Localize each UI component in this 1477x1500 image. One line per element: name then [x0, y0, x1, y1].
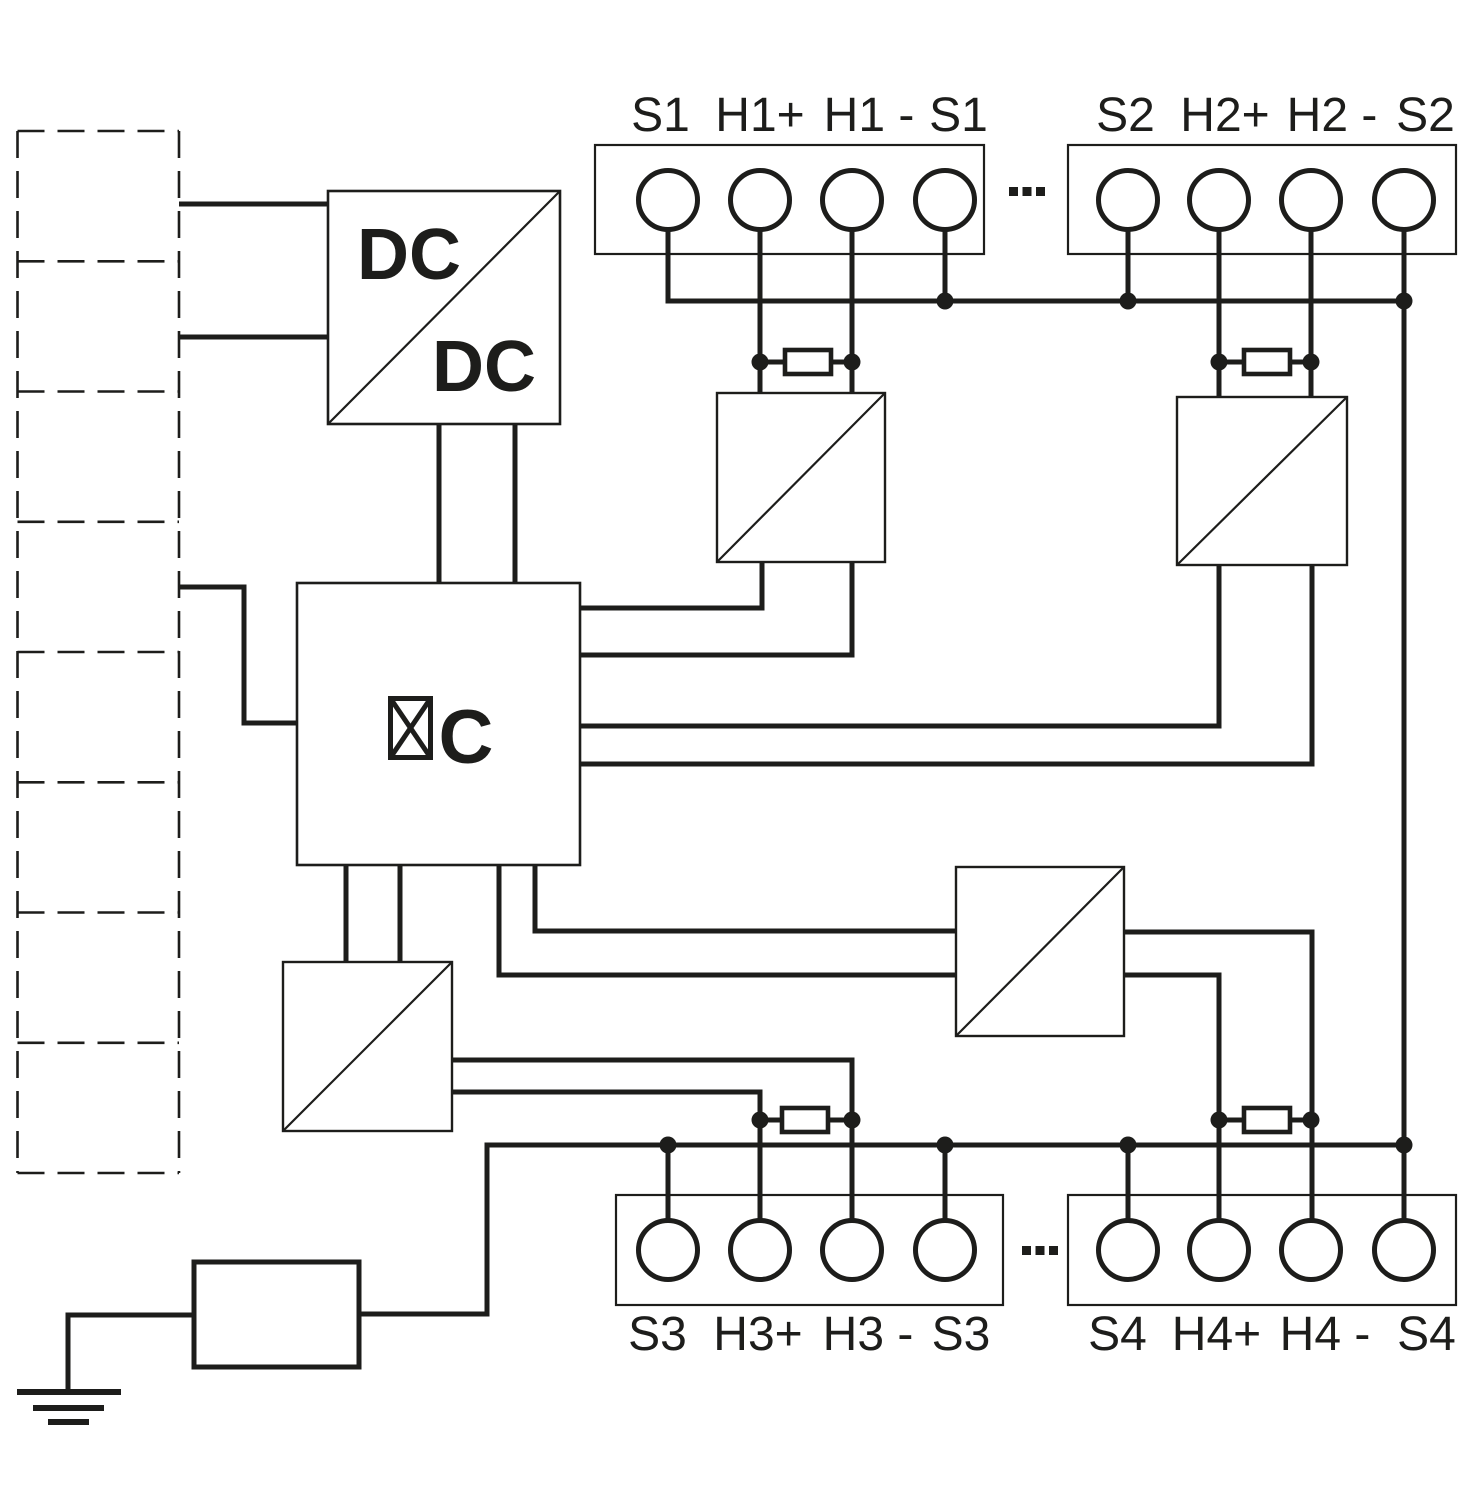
terminal S3 right	[916, 1221, 975, 1280]
svg-text:DC: DC	[432, 327, 536, 407]
wire isolator1 out A to uC	[580, 562, 762, 608]
svg-text:H3 -: H3 -	[823, 1308, 914, 1361]
wire isolator1 out B to uC	[580, 562, 852, 655]
wire isolator3 out B to H4+	[1124, 975, 1219, 1221]
svg-text:DC: DC	[357, 215, 461, 295]
terminal block X1	[595, 145, 984, 254]
junction S4-left / bottom bus	[1120, 1137, 1137, 1154]
wire isolator3 out A to H4-	[1124, 932, 1312, 1221]
ground	[17, 1392, 121, 1422]
wire H2- to isolator2	[1309, 229, 1314, 397]
junction R4 right	[1303, 1112, 1320, 1129]
wire bus to DC/DC lower	[179, 335, 328, 340]
wire uC to isolator3 in B	[499, 865, 956, 975]
svg-text:H2+: H2+	[1180, 89, 1269, 142]
wire S2-S4 common vertical	[1402, 229, 1407, 1221]
svg-text:H2 -: H2 -	[1287, 89, 1378, 142]
wire isolator2 out A to uC	[580, 565, 1219, 726]
wire S4 left stub	[1126, 1145, 1131, 1221]
bus connector (dashed backplane)	[18, 131, 180, 1173]
junction R4 left	[1211, 1112, 1228, 1129]
svg-text:S3: S3	[932, 1308, 991, 1361]
junction S3-left / bottom bus	[660, 1137, 677, 1154]
terminal S2 left	[1099, 171, 1158, 230]
resistor R3	[760, 1108, 852, 1132]
isolator 3 (mid right)	[956, 867, 1124, 1036]
terminal H1-	[823, 171, 882, 230]
wire isolator4 out B to H3+	[452, 1092, 760, 1221]
svg-text:S3: S3	[628, 1308, 687, 1361]
terminal block X3	[616, 1195, 1003, 1305]
wire filter to ground	[68, 1315, 194, 1392]
wire bus to DC/DC upper	[179, 202, 328, 207]
wire uC to isolator3 in A	[535, 865, 956, 931]
junction R2 right	[1303, 354, 1320, 371]
junction S2-left / top bus	[1120, 293, 1137, 310]
wire isolator2 out B to uC	[580, 565, 1312, 764]
junction R3 left	[752, 1112, 769, 1129]
wire S1 right stub	[943, 229, 948, 301]
wire isolator4 out A to H3-	[452, 1060, 852, 1221]
svg-text:H1 -: H1 -	[824, 89, 915, 142]
junction S1-right / top bus	[937, 293, 954, 310]
wire H1+ to isolator1	[758, 229, 763, 393]
svg-text:S2: S2	[1396, 89, 1455, 142]
junction R3 right	[844, 1112, 861, 1129]
wire H2+ to isolator2	[1217, 229, 1222, 397]
wire S2 left stub	[1126, 229, 1131, 301]
wire DC/DC to uC left	[437, 424, 442, 583]
isolator 4 (bottom left)	[283, 962, 452, 1131]
resistor R1	[760, 350, 852, 374]
svg-text:S4: S4	[1397, 1308, 1456, 1361]
resistor R4	[1219, 1108, 1311, 1132]
uC symbol crossed box	[391, 699, 431, 758]
terminal S1 right	[916, 171, 975, 230]
microcontroller uC	[297, 583, 580, 865]
svg-text:H3+: H3+	[713, 1308, 802, 1361]
resistor R2	[1219, 350, 1311, 374]
DC/DC converter	[328, 191, 560, 424]
isolator 2 (top right)	[1177, 397, 1347, 565]
svg-text:S4: S4	[1088, 1308, 1147, 1361]
wire bus to uC	[179, 587, 297, 723]
terminal H2+	[1190, 171, 1249, 230]
terminal S1 left	[639, 171, 698, 230]
wire H1- to isolator1	[850, 229, 855, 393]
svg-text:S1: S1	[929, 89, 988, 142]
wire uC to isolator4 in A	[344, 865, 349, 962]
filter block	[194, 1262, 359, 1367]
svg-text:S1: S1	[631, 89, 690, 142]
junction S4-right / bottom bus	[1396, 1137, 1413, 1154]
terminal H4+	[1190, 1221, 1249, 1280]
svg-text:C: C	[439, 695, 494, 780]
ellipsis top	[1009, 187, 1045, 196]
svg-text:H4 -: H4 -	[1280, 1308, 1371, 1361]
wire DC/DC to uC right	[513, 424, 518, 583]
wire S3 right stub	[943, 1145, 948, 1221]
svg-text:H1+: H1+	[715, 89, 804, 142]
junction R1 left	[752, 354, 769, 371]
terminal block X2	[1068, 145, 1456, 254]
terminal S3 left	[639, 1221, 698, 1280]
terminal H3+	[731, 1221, 790, 1280]
junction R1 right	[844, 354, 861, 371]
wire S1 top bus	[668, 229, 1404, 301]
terminal S2 right	[1375, 171, 1434, 230]
wire bottom bus with riser to filter	[359, 1145, 1404, 1314]
terminal H1+	[731, 171, 790, 230]
ellipsis bottom	[1022, 1246, 1058, 1255]
terminal block X4	[1068, 1195, 1456, 1305]
terminal H3-	[823, 1221, 882, 1280]
terminal S4 right	[1375, 1221, 1434, 1280]
svg-text:H4+: H4+	[1172, 1308, 1261, 1361]
wire uC to isolator4 in B	[398, 865, 403, 962]
terminal H4-	[1282, 1221, 1341, 1280]
isolator 1 (top left)	[717, 393, 885, 562]
junction S3-right / bottom bus	[937, 1137, 954, 1154]
junction S2-right / top bus	[1396, 293, 1413, 310]
wire S3 left stub	[666, 1145, 671, 1221]
terminal H2-	[1282, 171, 1341, 230]
junction R2 left	[1211, 354, 1228, 371]
terminal S4 left	[1099, 1221, 1158, 1280]
svg-text:S2: S2	[1096, 89, 1155, 142]
